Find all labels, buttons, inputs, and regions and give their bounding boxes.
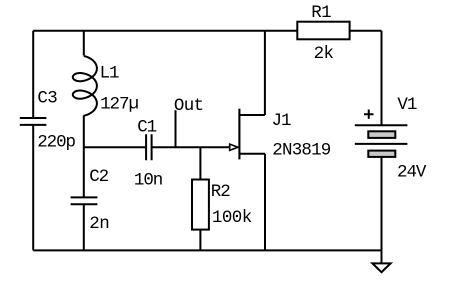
inductor L1 <box>73 56 97 116</box>
svg-text:10n: 10n <box>134 170 162 190</box>
svg-text:2N3819: 2N3819 <box>272 141 331 161</box>
svg-text:2k: 2k <box>314 44 334 64</box>
wire C1 to gate <box>153 146 230 148</box>
battery plus sign <box>364 110 374 119</box>
svg-text:R2: R2 <box>211 182 230 202</box>
transistor J1 channel bar <box>238 109 240 160</box>
capacitor C3 <box>20 118 47 125</box>
svg-text:C3: C3 <box>37 89 57 109</box>
wire drain lead <box>239 31 265 115</box>
wire L1 top stub <box>83 31 85 56</box>
svg-text:220p: 220p <box>37 133 75 153</box>
svg-text:C2: C2 <box>89 167 108 187</box>
transistor J1 gate arrow <box>230 144 238 150</box>
battery V1 plate 4 gray <box>368 151 395 157</box>
wire bottom rail <box>33 249 381 251</box>
svg-text:2n: 2n <box>89 214 109 234</box>
svg-text:100k: 100k <box>212 208 252 228</box>
capacitor C1 <box>146 134 152 160</box>
wire R2 to bottom rail <box>199 230 201 251</box>
svg-text:R1: R1 <box>311 3 331 23</box>
resistor R1 <box>297 22 349 40</box>
svg-text:Out: Out <box>174 96 203 116</box>
battery V1 plate 1 <box>355 124 408 126</box>
wire L1 to C2 <box>83 115 85 197</box>
svg-text:L1: L1 <box>100 63 119 83</box>
resistor R2 <box>192 180 209 230</box>
ground <box>372 263 390 272</box>
capacitor C2 <box>71 197 98 204</box>
wire left rail upper <box>32 31 34 118</box>
svg-text:J1: J1 <box>272 111 291 131</box>
svg-text:C1: C1 <box>137 117 156 137</box>
svg-text:V1: V1 <box>397 95 416 115</box>
battery V1 plate 3 <box>355 143 408 145</box>
wire Out stub <box>175 110 177 147</box>
svg-text:24V: 24V <box>397 163 427 183</box>
wire battery to ground <box>381 157 383 264</box>
wire source lead <box>239 154 265 251</box>
battery V1 plate 2 gray <box>368 131 395 138</box>
wire top rail <box>33 30 297 32</box>
wire R1 to battery <box>350 31 382 125</box>
svg-text:127µ: 127µ <box>100 95 138 115</box>
wire gate node to R2 <box>199 147 201 179</box>
wire tank node to C1 <box>84 146 145 148</box>
wire left rail lower <box>32 125 34 250</box>
wire C2 to bottom rail <box>83 204 85 250</box>
